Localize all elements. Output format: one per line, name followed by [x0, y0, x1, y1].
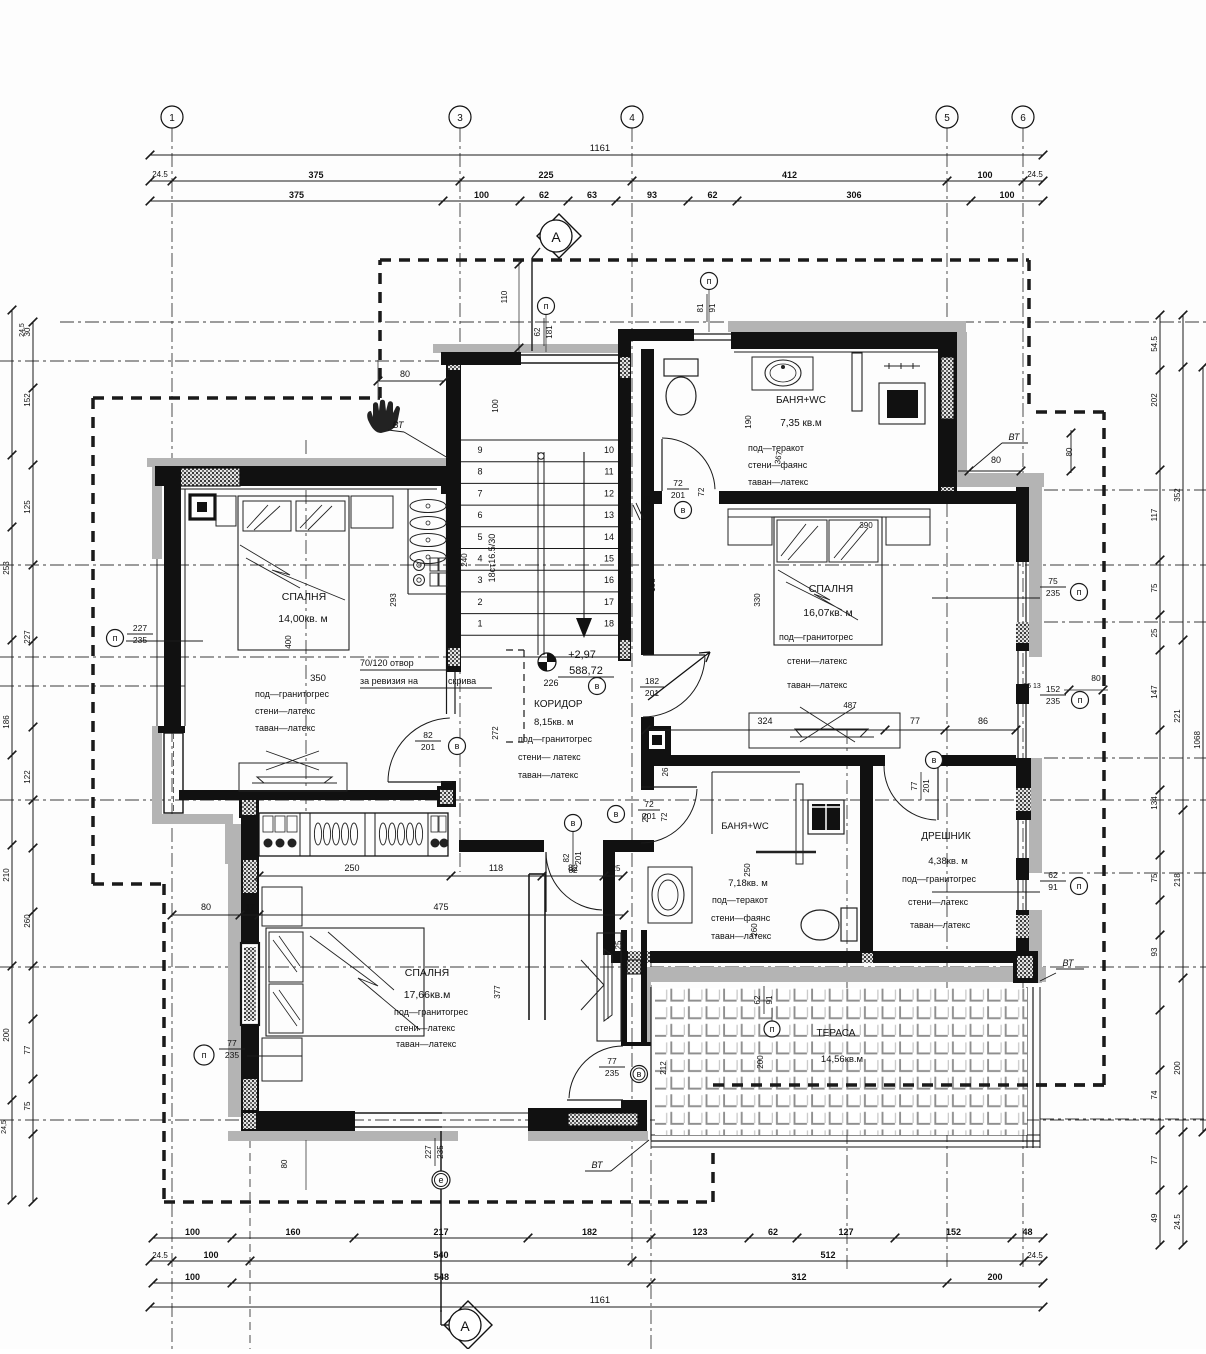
svg-text:200: 200: [987, 1272, 1002, 1282]
svg-text:100: 100: [999, 190, 1014, 200]
room1 dresser: [239, 763, 347, 791]
svg-text:стени—латекс: стени—латекс: [908, 897, 969, 907]
stair west wall: [446, 352, 461, 672]
svg-text:25 13: 25 13: [1023, 683, 1041, 690]
svg-text:235: 235: [133, 635, 147, 645]
svg-text:таван—латекс: таван—латекс: [910, 920, 971, 930]
svg-text:201: 201: [645, 688, 659, 698]
svg-text:152: 152: [946, 1227, 961, 1237]
svg-text:200: 200: [2, 1028, 11, 1042]
stair rail: [537, 452, 539, 655]
svg-text:8: 8: [477, 467, 482, 477]
svg-text:77: 77: [607, 1056, 617, 1066]
svg-text:72: 72: [644, 799, 654, 809]
svg-text:235: 235: [605, 1068, 619, 1078]
svg-text:стени— латекс: стени— латекс: [518, 752, 581, 762]
terrace tiles: [655, 988, 1027, 1135]
svg-text:100: 100: [977, 170, 992, 180]
door room3->terrace: [567, 1099, 623, 1101]
svg-text:125: 125: [23, 500, 32, 514]
svg-text:п: п: [770, 1024, 775, 1034]
svg-text:7: 7: [477, 488, 482, 498]
svg-text:240: 240: [460, 553, 469, 567]
svg-text:80: 80: [1091, 673, 1101, 683]
svg-text:70/120 отвор: 70/120 отвор: [360, 658, 414, 668]
svg-text:91: 91: [765, 995, 774, 1004]
svg-text:91: 91: [1048, 882, 1058, 892]
svg-text:93: 93: [1150, 947, 1159, 956]
svg-text:182: 182: [582, 1227, 597, 1237]
bath2 top dims: [646, 729, 1016, 731]
svg-text:100: 100: [185, 1272, 200, 1282]
svg-text:253: 253: [2, 561, 11, 575]
svg-text:312: 312: [791, 1272, 806, 1282]
stair east wall: [618, 329, 631, 661]
svg-text:100: 100: [474, 190, 489, 200]
svg-text:588,72: 588,72: [569, 665, 603, 677]
svg-text:227: 227: [133, 623, 147, 633]
grid bubbles: [161, 106, 183, 128]
svg-text:24.5: 24.5: [152, 170, 168, 179]
svg-text:под—гранитогрес: под—гранитогрес: [518, 734, 593, 744]
svg-text:п: п: [707, 276, 712, 286]
svg-text:18: 18: [604, 619, 614, 629]
dim 80 top-left: [378, 380, 444, 382]
svg-text:147: 147: [1150, 685, 1159, 699]
hand symbol: [367, 400, 400, 433]
door дрешник: [937, 766, 939, 820]
svg-text:п: п: [1077, 587, 1082, 597]
svg-text:75: 75: [1150, 873, 1159, 882]
svg-text:7,35 кв.м: 7,35 кв.м: [780, 418, 822, 429]
svg-text:217: 217: [433, 1227, 448, 1237]
svg-text:77: 77: [910, 716, 920, 726]
door room1: [388, 781, 452, 783]
svg-text:306: 306: [846, 190, 861, 200]
svg-text:100: 100: [185, 1227, 200, 1237]
svg-text:186: 186: [2, 715, 11, 729]
svg-text:212: 212: [659, 1061, 668, 1075]
bath2 west lower wall: [603, 840, 615, 955]
bath1 sink: [752, 357, 813, 390]
svg-text:48: 48: [1022, 1227, 1032, 1237]
svg-text:17: 17: [246, 903, 255, 912]
svg-text:п: п: [1078, 695, 1083, 705]
svg-text:17: 17: [604, 597, 614, 607]
bath1 toilet: [664, 359, 698, 376]
svg-text:118: 118: [489, 863, 503, 873]
svg-text:160: 160: [285, 1227, 300, 1237]
svg-text:БАНЯ+WC: БАНЯ+WC: [721, 821, 769, 832]
svg-text:9: 9: [477, 445, 482, 455]
svg-text:1068: 1068: [1193, 731, 1202, 749]
svg-text:стени—фаянс: стени—фаянс: [711, 913, 771, 923]
svg-text:таван—латекс: таван—латекс: [711, 931, 772, 941]
svg-text:24.5: 24.5: [1173, 1214, 1182, 1230]
svg-text:1: 1: [169, 113, 175, 124]
svg-text:93: 93: [647, 190, 657, 200]
svg-text:в: в: [637, 1069, 642, 1079]
svg-text:80: 80: [280, 1159, 289, 1168]
niche mirror cabinet: [597, 933, 621, 1041]
svg-text:под—гранитогрес: под—гранитогрес: [255, 689, 330, 699]
svg-text:в: в: [571, 818, 576, 828]
svg-text:25: 25: [641, 813, 650, 822]
room3 west wall: [241, 816, 259, 1111]
south wall bath2+дрешник: [611, 951, 1029, 963]
svg-text:стени—латекс: стени—латекс: [787, 656, 848, 666]
svg-text:293: 293: [389, 593, 398, 607]
svg-text:63: 63: [587, 190, 597, 200]
svg-text:14,00кв. м: 14,00кв. м: [278, 613, 328, 625]
svg-text:таван—латекс: таван—латекс: [396, 1039, 457, 1049]
svg-text:250: 250: [743, 863, 752, 877]
svg-text:3: 3: [457, 113, 463, 124]
svg-text:25: 25: [643, 495, 652, 504]
svg-text:74: 74: [1150, 1090, 1159, 1099]
svg-text:330: 330: [753, 593, 762, 607]
svg-text:А: А: [460, 1318, 470, 1334]
svg-text:А: А: [551, 229, 561, 245]
bath1 east wall: [938, 349, 957, 504]
svg-text:8,15кв. м: 8,15кв. м: [534, 717, 574, 728]
svg-text:375: 375: [308, 170, 323, 180]
terrace border: [650, 987, 652, 1140]
svg-text:ВТ: ВТ: [592, 1160, 604, 1170]
svg-text:п: п: [1077, 881, 1082, 891]
staircase treads: [461, 439, 618, 441]
svg-text:235: 235: [225, 1050, 239, 1060]
svg-text:16: 16: [604, 575, 614, 585]
svg-text:134: 134: [1150, 796, 1159, 810]
svg-text:12: 12: [604, 488, 614, 498]
svg-text:77: 77: [227, 1038, 237, 1048]
svg-text:235: 235: [436, 1145, 445, 1159]
room1 south wall: [179, 790, 448, 800]
floor opening dashes: [523, 650, 525, 742]
svg-text:4: 4: [629, 113, 635, 124]
svg-text:127: 127: [838, 1227, 853, 1237]
svg-text:е: е: [438, 1175, 443, 1185]
svg-text:7,18кв. м: 7,18кв. м: [728, 878, 768, 889]
svg-text:77: 77: [910, 781, 919, 790]
svg-text:412: 412: [782, 170, 797, 180]
stair bay north wall + window: [441, 352, 521, 365]
svg-text:117: 117: [1150, 508, 1159, 521]
insulation gray bands: [147, 458, 457, 467]
svg-text:221: 221: [1173, 709, 1182, 723]
section A top: [537, 214, 581, 258]
svg-text:таван—латекс: таван—латекс: [748, 477, 809, 487]
svg-text:235: 235: [1046, 696, 1060, 706]
svg-text:377: 377: [493, 985, 502, 999]
bath1 towel bar: [852, 353, 862, 411]
stair down arrow: [583, 452, 585, 624]
svg-text:в: в: [595, 681, 600, 691]
svg-text:ДРЕШНИК: ДРЕШНИК: [921, 831, 971, 842]
niche east wall to terrace: [621, 930, 627, 1046]
bath1 shower: [879, 383, 925, 424]
svg-text:152: 152: [23, 393, 32, 407]
svg-text:352: 352: [1173, 488, 1182, 502]
level marker: [547, 653, 556, 662]
svg-text:СПАЛНЯ: СПАЛНЯ: [405, 967, 449, 979]
svg-text:512: 512: [820, 1250, 835, 1260]
svg-text:в: в: [681, 505, 686, 515]
bubble e bottom: [440, 1131, 442, 1312]
svg-text:80: 80: [400, 369, 410, 379]
svg-text:11: 11: [604, 467, 613, 477]
svg-text:226: 226: [543, 678, 558, 688]
svg-text:25: 25: [612, 864, 621, 873]
svg-text:49: 49: [1150, 1213, 1159, 1222]
door room3: [545, 852, 547, 912]
grid axes: [171, 128, 173, 1349]
bath1 north wall: [731, 332, 957, 349]
room1 nightstands: [216, 496, 236, 526]
top dimension rows: [150, 154, 1043, 156]
door bedroom2: [643, 654, 705, 656]
svg-text:324: 324: [757, 716, 772, 726]
svg-text:4: 4: [477, 554, 482, 564]
svg-text:под—гранитогрес: под—гранитогрес: [902, 874, 977, 884]
entry arrow corridor: [648, 652, 710, 700]
svg-text:123: 123: [692, 1227, 707, 1237]
svg-text:13: 13: [604, 510, 614, 520]
svg-text:182: 182: [645, 676, 659, 686]
svg-text:225: 225: [538, 170, 553, 180]
svg-text:201: 201: [421, 742, 435, 752]
svg-text:15: 15: [604, 554, 614, 564]
svg-text:72: 72: [660, 812, 669, 821]
svg-text:540: 540: [433, 1250, 448, 1260]
svg-text:390: 390: [859, 521, 873, 530]
svg-text:54.5: 54.5: [1150, 336, 1159, 352]
svg-text:10: 10: [604, 445, 614, 455]
svg-text:24.5: 24.5: [1027, 170, 1043, 179]
svg-text:260: 260: [750, 923, 759, 937]
svg-text:198: 198: [648, 578, 657, 592]
bed2: [774, 517, 882, 645]
svg-text:227: 227: [424, 1145, 433, 1159]
room3 bed: [266, 928, 424, 1036]
room1 west window (french): [164, 733, 183, 813]
right dimension columns: [1159, 315, 1161, 1245]
svg-text:62: 62: [753, 995, 762, 1004]
room3 niche partition: [528, 874, 530, 1020]
svg-text:24.5: 24.5: [1027, 1251, 1043, 1260]
svg-text:201: 201: [671, 490, 685, 500]
svg-text:72: 72: [697, 487, 706, 496]
svg-text:п: п: [544, 301, 549, 311]
svg-text:1161: 1161: [590, 1295, 610, 1306]
svg-text:80: 80: [201, 902, 211, 912]
wardrobe row room3: [259, 813, 448, 856]
svg-text:62: 62: [707, 190, 717, 200]
shaft marks: [633, 505, 640, 520]
flue on corridor wall: [644, 726, 671, 755]
svg-text:77: 77: [1150, 1155, 1159, 1164]
svg-text:122: 122: [23, 770, 32, 784]
room1 bed: [238, 496, 349, 650]
shaft top piece + window to north: [618, 329, 694, 341]
svg-text:77: 77: [23, 1045, 32, 1054]
svg-text:548: 548: [434, 1272, 449, 1282]
bath2 toilet: [801, 910, 839, 940]
svg-text:14,56кв.м: 14,56кв.м: [821, 1054, 863, 1065]
svg-text:25: 25: [1150, 628, 1159, 637]
svg-text:6: 6: [477, 510, 482, 520]
svg-text:24.5: 24.5: [152, 1251, 168, 1260]
svg-text:стени—латекс: стени—латекс: [395, 1023, 456, 1033]
svg-text:под—гранитогрес: под—гранитогрес: [394, 1007, 469, 1017]
svg-text:1: 1: [477, 619, 482, 629]
window markers top: [538, 298, 555, 315]
svg-text:в: в: [932, 755, 937, 765]
svg-text:под—гранитогрес: под—гранитогрес: [779, 632, 854, 642]
svg-text:1161: 1161: [590, 143, 610, 154]
room1 flue square: [190, 495, 215, 519]
svg-text:в: в: [455, 741, 460, 751]
svg-text:6: 6: [1020, 113, 1026, 124]
svg-text:БАНЯ+WC: БАНЯ+WC: [776, 395, 826, 406]
svg-text:14: 14: [604, 532, 614, 542]
pier se room1: [437, 786, 456, 807]
svg-text:81: 81: [696, 303, 705, 312]
svg-text:под—теракот: под—теракот: [712, 895, 768, 905]
svg-text:таван—латекс: таван—латекс: [255, 723, 316, 733]
svg-text:ТЕРАСА: ТЕРАСА: [817, 1028, 856, 1039]
svg-text:24,5: 24,5: [19, 323, 26, 337]
svg-text:ВТ: ВТ: [1063, 958, 1075, 968]
bath2 vanity lines: [711, 772, 713, 834]
svg-text:ВТ: ВТ: [1009, 432, 1021, 442]
bottom dimension rows: [153, 1237, 1043, 1239]
svg-text:202: 202: [1150, 393, 1159, 407]
svg-text:СПАЛНЯ: СПАЛНЯ: [282, 591, 326, 603]
svg-text:110: 110: [500, 290, 509, 303]
svg-text:200: 200: [756, 1055, 765, 1069]
svg-text:5: 5: [477, 532, 482, 542]
svg-text:100: 100: [491, 399, 500, 413]
svg-text:75: 75: [1150, 583, 1159, 592]
svg-text:210: 210: [2, 868, 11, 882]
svg-text:25: 25: [614, 940, 623, 949]
pier sw of wardrobe: [239, 797, 259, 818]
bath2 washer: [808, 800, 844, 834]
svg-text:487: 487: [843, 701, 857, 710]
svg-text:62: 62: [539, 190, 549, 200]
bed2 headboard + nightstands: [728, 509, 930, 517]
section A bottom: [444, 1301, 492, 1349]
svg-text:250: 250: [344, 863, 359, 873]
svg-text:75: 75: [1048, 576, 1058, 586]
left dimension columns: [8, 306, 17, 315]
svg-text:82: 82: [423, 730, 433, 740]
door bath1: [661, 439, 663, 491]
svg-text:72: 72: [673, 478, 683, 488]
svg-text:75: 75: [23, 1101, 32, 1110]
svg-text:в: в: [614, 809, 619, 819]
svg-text:200: 200: [1173, 1061, 1182, 1075]
bath1+bed2 south/north wall: [641, 491, 1016, 504]
svg-text:475: 475: [433, 902, 448, 912]
bath2 sink: [648, 867, 692, 923]
svg-text:4,38кв. м: 4,38кв. м: [928, 856, 968, 867]
bed2 east wall: [1016, 487, 1029, 562]
svg-text:17,66кв.м: 17,66кв.м: [404, 989, 451, 1001]
svg-text:80: 80: [1065, 447, 1074, 456]
svg-text:272: 272: [491, 726, 500, 740]
room1 north wall: [155, 466, 449, 486]
svg-text:таван—латекс: таван—латекс: [787, 680, 848, 690]
svg-text:стени—латекс: стени—латекс: [255, 706, 316, 716]
svg-text:82: 82: [562, 853, 571, 862]
svg-text:за ревизия на: за ревизия на: [360, 676, 418, 686]
svg-text:+2,97: +2,97: [568, 649, 596, 661]
svg-text:350: 350: [310, 673, 326, 684]
svg-text:18ст16.5/30: 18ст16.5/30: [487, 534, 497, 583]
svg-text:190: 190: [744, 415, 753, 429]
door bath2: [641, 786, 697, 788]
svg-text:3: 3: [477, 575, 482, 585]
svg-text:КОРИДОР: КОРИДОР: [534, 699, 583, 710]
svg-text:80: 80: [991, 455, 1001, 465]
svg-text:24,5: 24,5: [1, 1120, 8, 1134]
room1 closet hangers: [407, 489, 409, 594]
дрешник north wall: [643, 755, 885, 766]
svg-text:16,07кв. м: 16,07кв. м: [803, 607, 853, 619]
svg-text:скрива: скрива: [448, 676, 476, 686]
svg-text:400: 400: [284, 635, 293, 649]
svg-text:п: п: [202, 1050, 207, 1060]
svg-text:62: 62: [533, 327, 542, 336]
bath2 shelf: [796, 784, 803, 864]
room1 west wall: [164, 466, 181, 728]
svg-text:п: п: [113, 633, 118, 643]
svg-text:86: 86: [978, 716, 988, 726]
bed2 dresser with mirror: [749, 713, 900, 748]
svg-text:5: 5: [944, 113, 950, 124]
svg-text:375: 375: [289, 190, 304, 200]
svg-text:152: 152: [1046, 684, 1060, 694]
svg-text:100: 100: [203, 1250, 218, 1260]
svg-text:227: 227: [23, 630, 32, 644]
bath1 / corridor west wall: [641, 349, 654, 655]
room3 corridor dims: [259, 875, 623, 877]
svg-text:260: 260: [23, 914, 32, 928]
svg-text:таван—латекс: таван—латекс: [518, 770, 579, 780]
svg-text:СПАЛНЯ: СПАЛНЯ: [809, 583, 853, 595]
svg-text:82: 82: [568, 863, 578, 873]
svg-text:62: 62: [768, 1227, 778, 1237]
svg-text:ВТ: ВТ: [393, 420, 405, 430]
room1 east wall upper: [441, 466, 456, 494]
svg-text:26: 26: [661, 767, 670, 776]
roof overhang dashed outline: [93, 396, 380, 400]
svg-text:62: 62: [1048, 870, 1058, 880]
svg-text:201: 201: [922, 779, 931, 793]
svg-text:2: 2: [477, 597, 482, 607]
room3 south wall: [241, 1111, 355, 1131]
bath2/дрешник divider: [860, 766, 873, 963]
svg-text:218: 218: [1173, 873, 1182, 887]
svg-text:235: 235: [1046, 588, 1060, 598]
